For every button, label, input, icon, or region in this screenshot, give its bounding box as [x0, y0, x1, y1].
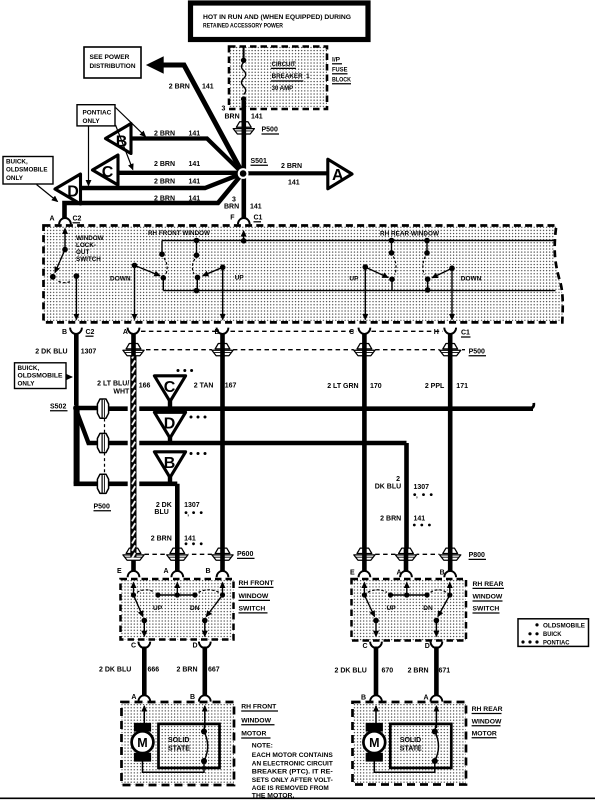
svg-text:CIRCUIT: CIRCUIT [272, 61, 296, 68]
svg-text:2 BRN: 2 BRN [281, 163, 302, 170]
svg-text:C2: C2 [73, 216, 82, 223]
svg-text:D: D [67, 184, 79, 201]
svg-text:2 BRN: 2 BRN [154, 196, 175, 203]
svg-text:SETS ONLY AFTER VOLT-: SETS ONLY AFTER VOLT- [252, 777, 333, 784]
svg-text:C: C [349, 329, 354, 336]
svg-text:C1: C1 [254, 215, 263, 222]
svg-text:DOWN: DOWN [110, 275, 131, 282]
svg-text:DN: DN [190, 605, 200, 612]
svg-text:ONLY: ONLY [83, 118, 101, 125]
svg-text:141: 141 [202, 84, 214, 91]
svg-text:B: B [206, 568, 211, 575]
svg-text:P500: P500 [262, 127, 278, 134]
svg-text:2 DK BLU: 2 DK BLU [335, 668, 367, 675]
svg-text:2 TAN: 2 TAN [194, 382, 214, 389]
svg-text:3: 3 [222, 106, 226, 113]
svg-text:E: E [117, 568, 122, 575]
svg-text:C: C [131, 643, 136, 650]
svg-text:PONTIAC: PONTIAC [543, 639, 570, 646]
svg-text:C: C [164, 379, 176, 396]
svg-text:2 DK BLU: 2 DK BLU [35, 348, 67, 355]
svg-text:WINDOW: WINDOW [241, 717, 271, 724]
svg-text:2 BRN: 2 BRN [154, 161, 175, 168]
svg-text:RH FRONT WINDOW: RH FRONT WINDOW [148, 230, 211, 237]
svg-text:167: 167 [225, 382, 237, 389]
svg-text:P800: P800 [469, 552, 485, 559]
svg-text:A: A [397, 570, 402, 577]
svg-text:RH REAR: RH REAR [473, 581, 504, 588]
svg-text:BREAKER 1: BREAKER 1 [272, 73, 310, 80]
svg-text:C2: C2 [86, 329, 95, 336]
svg-text:M: M [369, 736, 379, 750]
svg-text:141: 141 [414, 515, 426, 522]
svg-text:S502: S502 [50, 404, 66, 411]
svg-text:2 BRN: 2 BRN [154, 178, 175, 185]
svg-text:OLDSMOBILE: OLDSMOBILE [6, 167, 48, 174]
svg-text:C: C [102, 164, 114, 181]
svg-text:C1: C1 [461, 330, 470, 337]
svg-text:ONLY: ONLY [6, 175, 24, 182]
svg-text:BUICK,: BUICK, [6, 159, 28, 166]
svg-text:A: A [332, 167, 344, 184]
svg-text:A: A [424, 695, 429, 702]
svg-text:OLDSMOBILE: OLDSMOBILE [18, 373, 63, 380]
svg-text:SOLID: SOLID [400, 737, 421, 744]
svg-text:P500: P500 [469, 349, 485, 356]
svg-text:BLU: BLU [154, 509, 168, 516]
svg-text:NOTE:: NOTE: [252, 743, 273, 750]
svg-text:BRN: BRN [225, 114, 240, 121]
svg-text:2 LT GRN: 2 LT GRN [327, 383, 358, 390]
svg-text:DN: DN [423, 605, 433, 612]
svg-text:OUT: OUT [76, 249, 89, 256]
svg-text:SWITCH: SWITCH [473, 606, 500, 613]
svg-text:667: 667 [208, 667, 220, 674]
svg-text:RH REAR WINDOW: RH REAR WINDOW [380, 230, 440, 237]
svg-text:141: 141 [189, 178, 201, 185]
svg-text:D: D [193, 643, 198, 650]
svg-text:B: B [440, 570, 445, 577]
svg-text:,: , [416, 492, 418, 499]
svg-text:M: M [137, 736, 147, 750]
svg-text:2: 2 [396, 476, 400, 483]
svg-text:2 BRN: 2 BRN [177, 667, 198, 674]
svg-text:666: 666 [148, 667, 160, 674]
svg-text:141: 141 [251, 114, 263, 121]
svg-text:MOTOR: MOTOR [241, 731, 266, 738]
svg-text:671: 671 [439, 668, 451, 675]
svg-text:3: 3 [232, 197, 236, 204]
svg-text:1307: 1307 [81, 348, 97, 355]
svg-text:BREAKER (PTC). IT RE-: BREAKER (PTC). IT RE- [252, 769, 333, 776]
svg-text:OLDSMOBILE: OLDSMOBILE [543, 623, 586, 630]
svg-text:E: E [350, 570, 355, 577]
svg-text:WINDOW: WINDOW [473, 594, 503, 601]
svg-text:P500: P500 [94, 504, 110, 511]
svg-text:170: 170 [370, 383, 382, 390]
svg-text:171: 171 [456, 383, 468, 390]
svg-text:UP: UP [235, 275, 245, 282]
svg-text:2 BRN: 2 BRN [380, 515, 401, 522]
svg-text:A: A [164, 568, 169, 575]
svg-text:P600: P600 [237, 551, 253, 558]
svg-text:STATE: STATE [400, 745, 422, 752]
svg-text:S501: S501 [251, 158, 267, 165]
svg-text:B: B [62, 329, 67, 336]
svg-text:2 PPL: 2 PPL [425, 383, 445, 390]
svg-text:BRN: BRN [224, 204, 239, 211]
svg-text:LOCK-: LOCK- [76, 242, 96, 249]
svg-text:BLOCK: BLOCK [332, 77, 351, 84]
svg-text:AN ELECTRONIC CIRCUIT: AN ELECTRONIC CIRCUIT [252, 760, 334, 767]
svg-text:2 DK BLU: 2 DK BLU [99, 667, 131, 674]
svg-text:DISTRIBUTION: DISTRIBUTION [90, 63, 136, 70]
svg-text:141: 141 [189, 131, 201, 138]
svg-text:2 BRN: 2 BRN [408, 668, 429, 675]
svg-text:141: 141 [288, 180, 300, 187]
svg-text:ONLY: ONLY [18, 381, 36, 388]
svg-text:B: B [164, 455, 176, 472]
svg-text:D: D [164, 415, 176, 432]
svg-text:WHT: WHT [113, 389, 130, 396]
svg-text:141: 141 [184, 536, 196, 543]
svg-text:B: B [215, 329, 220, 336]
svg-text:166: 166 [139, 383, 151, 390]
svg-text:2 BRN: 2 BRN [151, 536, 172, 543]
svg-text:A: A [50, 216, 55, 223]
svg-text:B: B [190, 694, 195, 701]
svg-text:SWITCH: SWITCH [76, 256, 101, 263]
svg-text:HOT IN RUN AND (WHEN EQUIPPED): HOT IN RUN AND (WHEN EQUIPPED) DURING [203, 14, 351, 21]
svg-text:AGE IS REMOVED FROM: AGE IS REMOVED FROM [252, 785, 329, 792]
svg-text:F: F [230, 215, 235, 222]
svg-text:DK BLU: DK BLU [375, 484, 401, 491]
svg-text:WINDOW: WINDOW [76, 235, 104, 242]
svg-text:I/P: I/P [332, 57, 341, 64]
svg-text:H: H [434, 329, 439, 336]
svg-text:RH FRONT: RH FRONT [241, 704, 277, 711]
svg-text:141: 141 [189, 161, 201, 168]
svg-text:A: A [123, 329, 128, 336]
svg-text:D: D [425, 643, 430, 650]
svg-text:B: B [361, 695, 366, 702]
svg-text:30 AMP: 30 AMP [272, 85, 294, 92]
svg-text:MOTOR: MOTOR [472, 730, 497, 737]
svg-text:RETAINED ACCESSORY POWER: RETAINED ACCESSORY POWER [203, 23, 283, 30]
svg-text:UP: UP [349, 275, 359, 282]
svg-text:WINDOW: WINDOW [239, 593, 269, 600]
svg-text:SWITCH: SWITCH [239, 606, 266, 613]
svg-text:C: C [363, 643, 368, 650]
svg-text:2 BRN: 2 BRN [154, 131, 175, 138]
svg-text:RH REAR: RH REAR [472, 706, 503, 713]
svg-text:UP: UP [387, 605, 397, 612]
svg-text:670: 670 [382, 668, 394, 675]
svg-text:SOLID: SOLID [168, 737, 189, 744]
svg-text:1307: 1307 [184, 502, 200, 509]
svg-text:141: 141 [250, 204, 262, 211]
svg-text:2 DK: 2 DK [156, 502, 172, 509]
svg-text:FUSE: FUSE [332, 67, 348, 74]
svg-text:UP: UP [153, 605, 163, 612]
svg-text:RH FRONT: RH FRONT [239, 580, 275, 587]
svg-text:EACH MOTOR CONTAINS: EACH MOTOR CONTAINS [252, 752, 333, 759]
svg-text:141: 141 [189, 196, 201, 203]
svg-text:PONTIAC: PONTIAC [83, 110, 112, 117]
svg-text:SEE POWER: SEE POWER [90, 54, 130, 61]
svg-text:WINDOW: WINDOW [472, 718, 502, 725]
svg-text:STATE: STATE [168, 745, 190, 752]
svg-text:2 LT BLU/: 2 LT BLU/ [97, 381, 129, 388]
svg-text:BUICK,: BUICK, [18, 365, 40, 372]
svg-text:1307: 1307 [414, 484, 430, 491]
svg-text:DOWN: DOWN [461, 275, 482, 282]
svg-text:BUICK: BUICK [543, 631, 562, 638]
svg-text:A: A [131, 694, 136, 701]
svg-text:2 BRN: 2 BRN [169, 84, 190, 91]
svg-text:,: , [187, 510, 189, 517]
